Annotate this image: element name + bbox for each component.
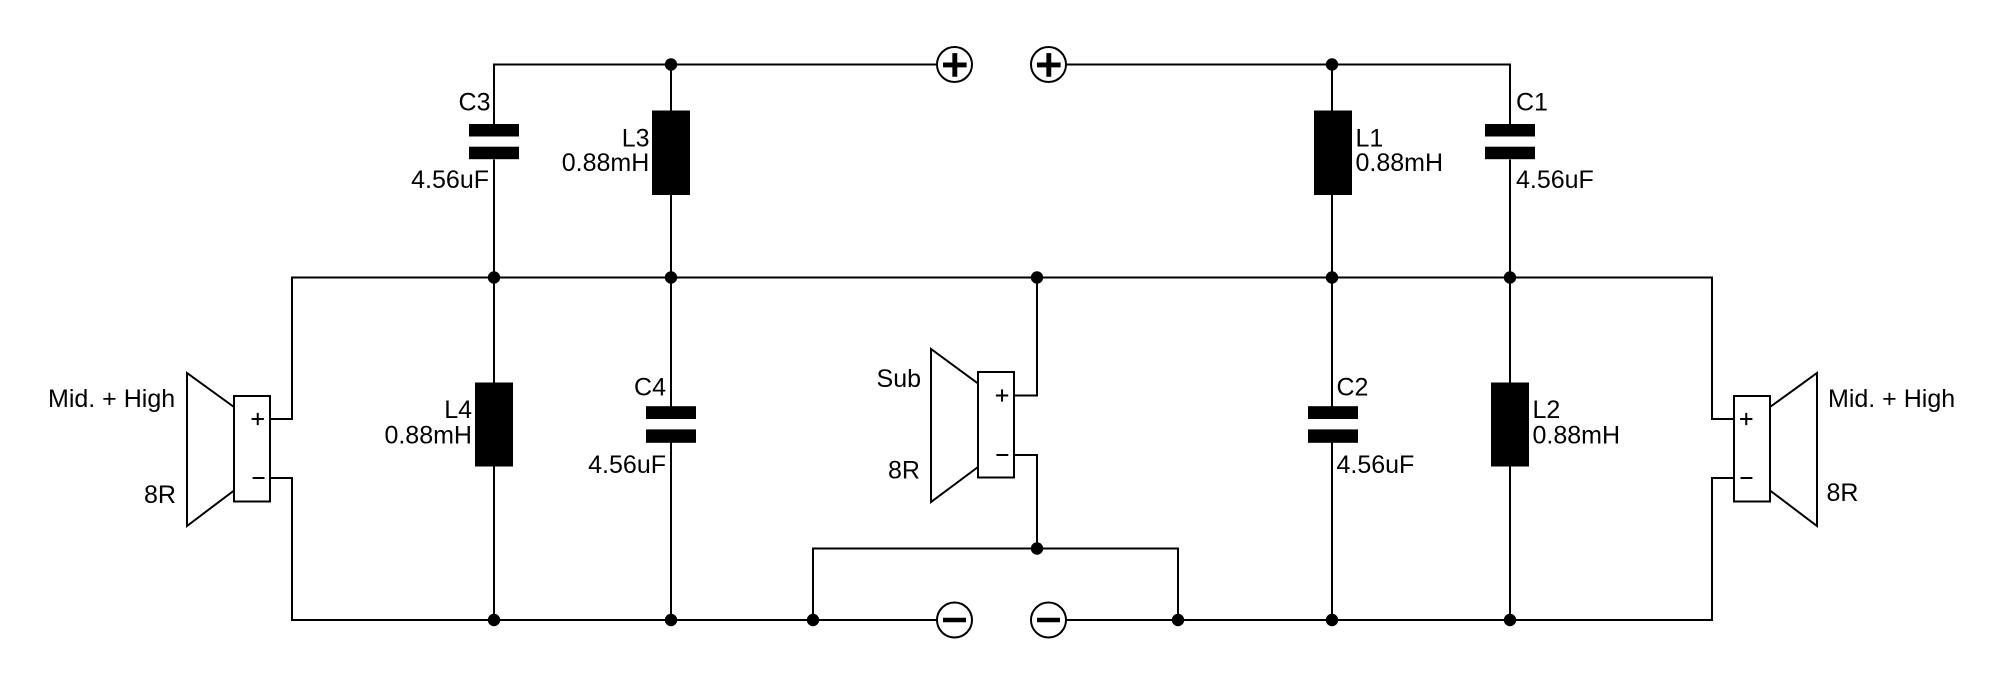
node bottom C2: [1326, 614, 1338, 626]
svg-text:4.56uF: 4.56uF: [1516, 166, 1594, 194]
speaker left cone: [187, 373, 234, 526]
speaker right box: [1734, 396, 1770, 502]
svg-text:L1: L1: [1356, 124, 1384, 152]
wire C3 bottom stub: [493, 160, 495, 278]
wire C4 top stub: [670, 278, 672, 407]
svg-text:4.56uF: 4.56uF: [1337, 451, 1415, 479]
terminal - right: [1031, 603, 1066, 638]
wire C4 bottom stub: [670, 443, 672, 621]
wire L1 bottom stub: [1331, 195, 1333, 278]
node bottom L4: [488, 614, 500, 626]
svg-text:4.56uF: 4.56uF: [588, 451, 666, 479]
speaker sub minus: [996, 454, 1008, 456]
svg-text:0.88mH: 0.88mH: [1356, 149, 1444, 177]
speaker right cone: [1770, 373, 1817, 526]
terminal + right: [1031, 47, 1066, 82]
svg-text:L4: L4: [444, 396, 472, 424]
svg-text:Sub: Sub: [877, 365, 921, 393]
svg-text:8R: 8R: [144, 481, 176, 509]
node top L1: [1326, 58, 1338, 70]
wire sub plus branch: [1014, 278, 1037, 396]
speaker right minus: [1741, 477, 1753, 479]
wire sub minus branch: [1014, 455, 1037, 549]
svg-text:L2: L2: [1533, 396, 1561, 424]
wire top bus right: [1066, 65, 1510, 125]
terminal - left: [937, 603, 972, 638]
svg-text:C2: C2: [1337, 374, 1369, 402]
capacitor C1: [1485, 124, 1535, 159]
wire sub rail: [813, 549, 1178, 621]
inductor L4: [475, 383, 513, 467]
svg-text:Mid. + High: Mid. + High: [48, 385, 175, 413]
wire L2 bottom stub: [1509, 467, 1511, 621]
wire L4 bottom stub: [493, 467, 495, 621]
speaker left minus: [253, 477, 265, 479]
speaker left box: [234, 396, 270, 502]
svg-text:0.88mH: 0.88mH: [562, 149, 650, 177]
wire C2 bottom stub: [1331, 443, 1333, 621]
node bottom L2: [1504, 614, 1516, 626]
speaker left plus: [252, 413, 264, 425]
wire L3 bottom stub: [670, 195, 672, 278]
svg-text:0.88mH: 0.88mH: [1533, 421, 1621, 449]
svg-text:0.88mH: 0.88mH: [384, 421, 472, 449]
capacitor C4: [646, 406, 696, 443]
node mid sub: [1031, 271, 1043, 283]
svg-text:Mid. + High: Mid. + High: [1828, 385, 1955, 413]
node mid L1/C2: [1326, 271, 1338, 283]
wire C1 bottom stub: [1509, 160, 1511, 278]
node top L3: [665, 58, 677, 70]
capacitor C3: [469, 124, 519, 159]
svg-text:L3: L3: [622, 124, 650, 152]
node bottom rail left: [807, 614, 819, 626]
speaker sub plus: [996, 389, 1008, 401]
wire L1 top stub: [1331, 65, 1333, 111]
node bottom C4: [665, 614, 677, 626]
wire middle bus with speaker + branches: [270, 278, 1734, 420]
inductor L3: [652, 111, 690, 196]
node mid C1/L2: [1504, 271, 1516, 283]
wire bottom bus left with speaker - branch: [270, 478, 937, 620]
node mid L3/C4: [665, 271, 677, 283]
svg-text:4.56uF: 4.56uF: [411, 166, 489, 194]
wire L4 top stub: [493, 278, 495, 383]
wire bottom bus right with speaker - branch: [1066, 478, 1734, 620]
node sub rail: [1031, 542, 1043, 554]
svg-text:C4: C4: [634, 374, 666, 402]
wire L3 top stub: [670, 65, 672, 111]
svg-text:C3: C3: [459, 88, 491, 116]
capacitor C2: [1308, 406, 1358, 443]
speaker sub box: [978, 372, 1014, 478]
svg-text:8R: 8R: [888, 457, 920, 485]
speaker sub cone: [931, 349, 978, 502]
node mid C3/L4: [488, 271, 500, 283]
wire C2 top stub: [1331, 278, 1333, 407]
inductor L2: [1491, 383, 1529, 467]
wire L2 top stub: [1509, 278, 1511, 383]
svg-text:8R: 8R: [1827, 479, 1859, 507]
speaker right plus: [1740, 413, 1752, 425]
terminal + left: [937, 47, 972, 82]
svg-text:C1: C1: [1516, 88, 1548, 116]
node bottom rail right: [1172, 614, 1184, 626]
inductor L1: [1314, 111, 1352, 196]
wire top bus left: [494, 65, 937, 125]
